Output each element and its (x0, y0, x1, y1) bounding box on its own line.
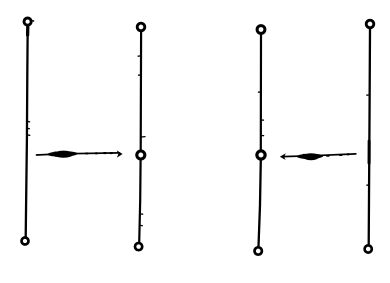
node D bottom (365, 245, 372, 252)
photon blob 1 (47, 151, 78, 158)
arrowhead 2 (280, 153, 286, 160)
node B middle (137, 151, 145, 159)
wire worldline B lower (139, 160, 143, 243)
node A bottom (22, 238, 29, 245)
node B top (137, 23, 145, 31)
photon arrow 2 shaft (282, 154, 356, 157)
node B bottom (135, 243, 142, 250)
arrowhead 1 (117, 150, 123, 157)
node C bottom (255, 247, 262, 254)
wire worldline A (26, 26, 30, 237)
photon arrow 1 shaft (37, 153, 120, 155)
node C middle (257, 151, 265, 159)
wire worldline C upper (258, 34, 263, 150)
wire worldline D (367, 29, 370, 244)
node A top (24, 18, 34, 25)
wire worldline B upper (138, 32, 145, 151)
photon blob 2 (297, 153, 324, 160)
node D top (366, 20, 374, 28)
wire worldline C lower (259, 160, 261, 246)
node C top (257, 26, 265, 34)
